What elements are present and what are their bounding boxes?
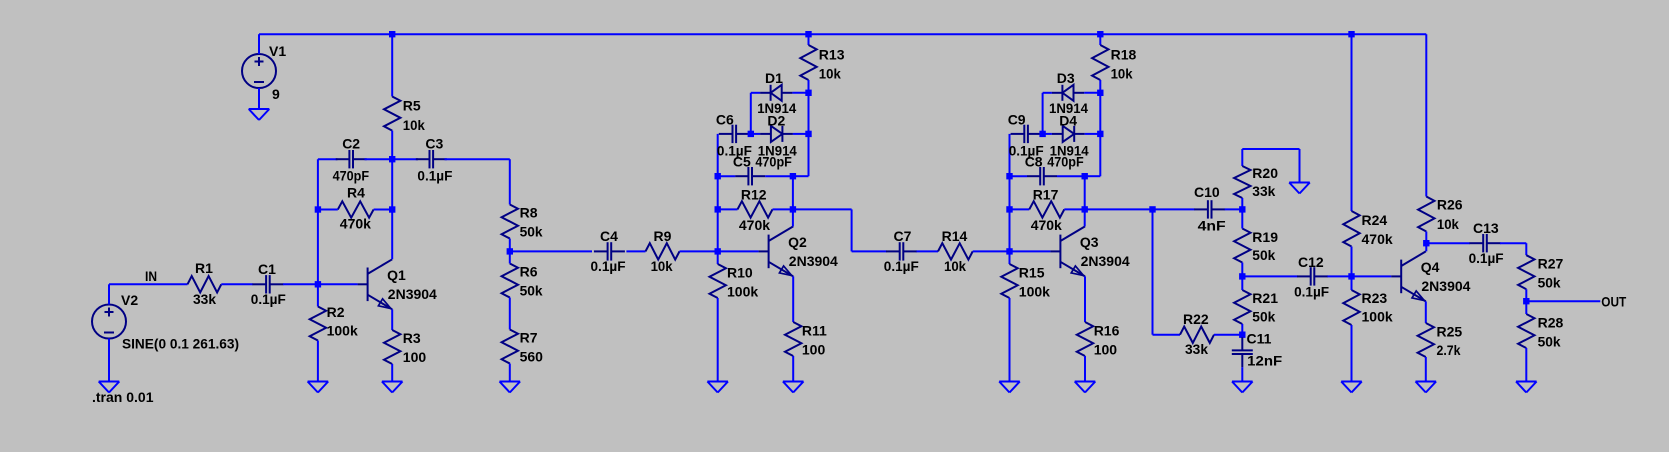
wire — [1084, 209, 1086, 226]
svg-text:33k: 33k — [193, 291, 216, 307]
junction — [1097, 31, 1103, 37]
svg-text:R13: R13 — [819, 47, 845, 63]
svg-text:0.1µF: 0.1µF — [884, 258, 919, 274]
wire — [1085, 208, 1153, 210]
svg-text:C2: C2 — [342, 136, 360, 152]
svg-text:50k: 50k — [1538, 334, 1561, 350]
junction — [1006, 206, 1012, 212]
wire — [792, 92, 808, 94]
wire — [1351, 247, 1353, 277]
svg-text:33k: 33k — [1185, 341, 1208, 357]
wire — [765, 175, 793, 177]
wire — [717, 251, 719, 264]
svg-text:Q2: Q2 — [788, 234, 807, 250]
wire — [108, 339, 110, 382]
junction — [389, 206, 395, 212]
junction — [1082, 173, 1088, 179]
junction — [790, 173, 796, 179]
wire — [1043, 92, 1052, 94]
svg-text:100k: 100k — [1019, 284, 1050, 300]
svg-text:IN: IN — [145, 268, 157, 284]
wire — [1352, 275, 1392, 277]
svg-text:R17: R17 — [1033, 187, 1059, 203]
junction — [715, 173, 721, 179]
transistor Q2 — [759, 226, 838, 276]
wire — [1214, 334, 1242, 336]
wire — [318, 158, 338, 160]
svg-text:2N3904: 2N3904 — [388, 286, 437, 302]
wire — [1425, 301, 1427, 323]
wire — [773, 208, 793, 210]
wire — [391, 309, 393, 330]
capacitor C3 — [416, 136, 453, 184]
svg-text:100k: 100k — [727, 284, 758, 300]
svg-text:D4: D4 — [1059, 113, 1077, 129]
svg-text:C10: C10 — [1194, 184, 1220, 200]
svg-text:2N3904: 2N3904 — [789, 253, 838, 269]
svg-text:50k: 50k — [1252, 247, 1275, 263]
wire — [258, 88, 260, 109]
svg-text:R16: R16 — [1094, 323, 1120, 339]
wire — [1241, 149, 1243, 166]
wire — [808, 34, 810, 45]
wire — [973, 250, 1010, 252]
junction — [1239, 273, 1245, 279]
resistor R26 — [1418, 197, 1463, 233]
ground — [1289, 183, 1310, 194]
wire — [1241, 276, 1243, 290]
svg-text:C13: C13 — [1473, 220, 1499, 236]
svg-text:R2: R2 — [327, 304, 345, 320]
ground — [999, 382, 1020, 393]
resistor R10 — [710, 264, 759, 300]
wire — [318, 209, 338, 211]
svg-text:Q1: Q1 — [387, 267, 406, 283]
svg-text:560: 560 — [520, 349, 544, 365]
wire — [1043, 133, 1052, 135]
capacitor C6 — [716, 112, 752, 159]
transistor Q1 — [358, 259, 437, 309]
ground — [382, 382, 403, 393]
svg-text:0.1µF: 0.1µF — [591, 258, 626, 274]
capacitor C2 — [333, 136, 370, 184]
ground — [1341, 382, 1362, 393]
capacitor C13 — [1469, 220, 1504, 266]
resistor R19 — [1234, 229, 1278, 264]
voltage source V2 — [92, 292, 239, 352]
ground — [1075, 382, 1096, 393]
wire — [917, 250, 939, 252]
svg-text:D1: D1 — [765, 70, 783, 86]
svg-text:R14: R14 — [942, 228, 968, 244]
resistor R15 — [1001, 264, 1050, 300]
svg-text:R22: R22 — [1183, 311, 1209, 327]
svg-text:0.1µF: 0.1µF — [251, 291, 286, 307]
svg-text:R28: R28 — [1538, 315, 1564, 331]
svg-text:100: 100 — [1094, 342, 1118, 358]
wire — [509, 239, 511, 252]
junction — [805, 131, 811, 137]
svg-text:0.1µF: 0.1µF — [417, 168, 452, 184]
wire — [1057, 175, 1085, 177]
wire — [1099, 80, 1101, 176]
resistor R12 — [738, 187, 773, 234]
wire — [391, 210, 393, 260]
ground — [1416, 382, 1437, 393]
wire — [751, 133, 760, 135]
svg-text:C6: C6 — [716, 112, 734, 128]
wire — [445, 158, 510, 160]
capacitor C5 — [733, 154, 792, 186]
wire — [717, 134, 719, 252]
svg-text:470pF: 470pF — [1047, 154, 1084, 170]
resistor R3 — [384, 330, 426, 365]
svg-text:D2: D2 — [767, 113, 785, 129]
wire — [718, 208, 738, 210]
capacitor C1 — [251, 261, 286, 307]
wire — [751, 92, 760, 94]
junction — [1423, 240, 1429, 246]
wire — [1084, 176, 1086, 209]
wire — [852, 250, 887, 252]
capacitor C4 — [591, 228, 626, 274]
wire — [1242, 148, 1299, 150]
wire — [1153, 208, 1195, 210]
svg-text:C8: C8 — [1025, 154, 1043, 170]
resistor R11 — [785, 322, 827, 358]
wire — [1500, 242, 1526, 244]
wire — [750, 93, 752, 134]
svg-text:C1: C1 — [258, 261, 276, 277]
svg-text:R10: R10 — [727, 265, 753, 281]
wire — [1426, 242, 1470, 244]
svg-text:10k: 10k — [651, 258, 673, 274]
wire — [1299, 149, 1301, 183]
voltage source V1 — [242, 43, 286, 102]
ground — [500, 382, 521, 393]
svg-text:C11: C11 — [1247, 331, 1272, 347]
wire — [1241, 263, 1243, 277]
svg-text:10k: 10k — [1437, 216, 1459, 232]
wire — [792, 176, 794, 209]
wire — [1041, 133, 1043, 135]
svg-text:10k: 10k — [403, 117, 425, 133]
ground — [783, 382, 804, 393]
resistor R9 — [646, 228, 680, 274]
svg-text:R21: R21 — [1252, 290, 1278, 306]
resistor R28 — [1518, 314, 1563, 350]
ground — [99, 382, 120, 393]
ground — [308, 382, 329, 393]
svg-text:R23: R23 — [1362, 290, 1388, 306]
svg-text:V2: V2 — [121, 292, 138, 308]
junction — [315, 206, 321, 212]
svg-text:R19: R19 — [1252, 229, 1278, 245]
wire — [808, 80, 810, 176]
wire — [365, 158, 393, 160]
wire — [317, 341, 319, 382]
wire — [1241, 209, 1243, 228]
svg-text:.tran 0.01: .tran 0.01 — [92, 389, 154, 405]
junction — [1523, 298, 1529, 304]
wire — [509, 159, 511, 204]
wire — [1152, 209, 1154, 334]
svg-text:100: 100 — [802, 342, 826, 358]
svg-text:OUT: OUT — [1601, 294, 1626, 310]
wire — [1241, 198, 1243, 209]
wire — [1085, 175, 1101, 177]
resistor R1 — [188, 260, 222, 307]
junction — [507, 248, 513, 254]
wire — [1525, 243, 1527, 255]
wire — [717, 298, 719, 382]
resistor R6 — [502, 264, 543, 299]
wire — [1328, 275, 1352, 277]
svg-text:470k: 470k — [1031, 217, 1062, 233]
junction — [805, 90, 811, 96]
capacitor C12 — [1294, 254, 1329, 300]
svg-text:C3: C3 — [425, 136, 443, 152]
wire — [680, 250, 718, 252]
transistor Q4 — [1391, 251, 1470, 301]
ground — [707, 382, 728, 393]
wire — [1010, 250, 1051, 252]
wire — [318, 283, 358, 285]
diode D3 — [1049, 70, 1088, 116]
wire — [1526, 300, 1600, 302]
svg-text:50k: 50k — [520, 224, 543, 240]
svg-text:R12: R12 — [741, 187, 767, 203]
svg-text:R11: R11 — [802, 323, 827, 339]
svg-text:10k: 10k — [1111, 66, 1133, 82]
wire — [510, 250, 592, 252]
junction — [1006, 173, 1012, 179]
svg-text:C5: C5 — [733, 154, 751, 170]
svg-text:4nF: 4nF — [1198, 218, 1227, 234]
wire — [1009, 251, 1011, 264]
junction — [1097, 131, 1103, 137]
diode D1 — [757, 70, 796, 116]
wire — [793, 133, 809, 135]
junction — [1006, 248, 1012, 254]
ground — [1232, 382, 1253, 393]
wire — [1425, 34, 1427, 196]
wire — [391, 364, 393, 382]
svg-text:R6: R6 — [520, 264, 538, 280]
svg-text:SINE(0 0.1 261.63): SINE(0 0.1 261.63) — [122, 336, 239, 352]
resistor R4 — [338, 185, 374, 232]
svg-text:100: 100 — [403, 349, 427, 365]
svg-text:R4: R4 — [347, 185, 365, 201]
wire — [1084, 92, 1100, 94]
resistor R21 — [1234, 290, 1278, 325]
resistor R2 — [310, 304, 358, 341]
wire — [109, 283, 188, 285]
junction — [715, 248, 721, 254]
wire — [221, 283, 253, 285]
svg-text:R9: R9 — [654, 228, 672, 244]
wire — [1085, 133, 1101, 135]
junction — [1039, 131, 1045, 137]
capacitor C7 — [884, 228, 919, 274]
svg-text:R24: R24 — [1362, 212, 1388, 228]
svg-text:33k: 33k — [1252, 183, 1275, 199]
capacitor C9 — [1008, 112, 1044, 159]
junction — [715, 206, 721, 212]
svg-text:0.1µF: 0.1µF — [1294, 284, 1329, 300]
wire — [1425, 232, 1427, 252]
svg-text:R1: R1 — [195, 260, 213, 276]
svg-text:D3: D3 — [1057, 70, 1075, 86]
wire — [792, 356, 794, 382]
resistor R27 — [1518, 255, 1563, 290]
junction — [1082, 206, 1088, 212]
svg-text:2N3904: 2N3904 — [1421, 278, 1470, 294]
junction — [1149, 206, 1155, 212]
svg-text:V1: V1 — [269, 43, 286, 59]
svg-text:C12: C12 — [1298, 254, 1324, 270]
svg-text:100k: 100k — [327, 323, 358, 339]
wire — [1010, 208, 1030, 210]
junction — [1348, 273, 1354, 279]
capacitor C8 — [1025, 154, 1084, 186]
junction — [790, 206, 796, 212]
wire — [283, 283, 318, 285]
wire — [374, 209, 393, 211]
junction — [1348, 31, 1354, 37]
wire — [1241, 324, 1243, 335]
svg-text:0.1µF: 0.1µF — [1469, 250, 1504, 266]
wire — [1009, 298, 1011, 382]
wire — [626, 250, 645, 252]
resistor R25 — [1418, 323, 1463, 358]
svg-text:10k: 10k — [819, 66, 841, 82]
junction — [748, 131, 754, 137]
wire — [509, 251, 511, 263]
transistor Q3 — [1050, 226, 1129, 276]
svg-text:50k: 50k — [1252, 309, 1275, 325]
wire — [792, 209, 794, 226]
capacitor C10 — [1194, 184, 1226, 234]
wire — [1242, 275, 1297, 277]
svg-text:10k: 10k — [944, 258, 966, 274]
resistor R5 — [384, 97, 425, 134]
wire — [1042, 93, 1044, 134]
wire — [1425, 357, 1427, 382]
svg-text:Q3: Q3 — [1080, 234, 1099, 250]
diode D2 — [758, 113, 797, 159]
svg-text:C7: C7 — [894, 228, 912, 244]
svg-text:R26: R26 — [1437, 197, 1463, 213]
wire — [1009, 134, 1011, 252]
wire — [258, 34, 260, 54]
wire — [1351, 325, 1353, 382]
wire — [1241, 367, 1243, 381]
wire — [509, 298, 511, 330]
junction — [315, 281, 321, 287]
wire — [749, 133, 751, 135]
svg-text:R3: R3 — [403, 330, 421, 346]
wire — [1351, 34, 1353, 211]
junction — [1239, 332, 1245, 338]
wire — [1010, 175, 1028, 177]
wire — [1153, 334, 1181, 336]
junction — [1097, 90, 1103, 96]
svg-text:R27: R27 — [1538, 256, 1564, 272]
junction — [805, 31, 811, 37]
resistor R20 — [1234, 165, 1278, 199]
wire — [1064, 208, 1084, 210]
resistor R23 — [1343, 290, 1393, 325]
resistor R18 — [1092, 45, 1136, 82]
wire — [317, 159, 319, 284]
resistor R14 — [938, 228, 973, 274]
junction — [389, 31, 395, 37]
wire — [1084, 276, 1086, 322]
resistor R13 — [800, 45, 844, 82]
wire — [1351, 276, 1353, 290]
wire — [317, 284, 319, 306]
capacitor C11 — [1232, 331, 1283, 369]
svg-text:470k: 470k — [340, 216, 371, 232]
junction — [389, 156, 395, 162]
wire — [792, 276, 794, 322]
resistor R24 — [1343, 211, 1393, 247]
wire — [391, 159, 393, 209]
svg-text:9: 9 — [272, 86, 280, 102]
resistor R22 — [1180, 311, 1214, 357]
ground — [1516, 382, 1537, 393]
svg-text:R8: R8 — [520, 205, 538, 221]
wire — [1525, 301, 1527, 314]
svg-text:470k: 470k — [1362, 231, 1393, 247]
wire — [793, 175, 809, 177]
svg-text:100k: 100k — [1362, 309, 1393, 325]
resistor R16 — [1077, 322, 1120, 358]
wire — [1084, 356, 1086, 382]
svg-text:470k: 470k — [739, 217, 770, 233]
svg-text:470pF: 470pF — [755, 154, 792, 170]
svg-text:R25: R25 — [1437, 324, 1463, 340]
junction — [1239, 206, 1245, 212]
svg-text:2.7k: 2.7k — [1437, 342, 1461, 358]
diode D4 — [1050, 113, 1089, 159]
wire — [851, 209, 853, 251]
svg-text:R18: R18 — [1111, 47, 1137, 63]
svg-text:R15: R15 — [1019, 265, 1045, 281]
svg-text:R5: R5 — [403, 98, 421, 114]
resistor R8 — [502, 205, 543, 240]
wire — [391, 34, 393, 96]
resistor R17 — [1029, 187, 1064, 234]
svg-text:R20: R20 — [1252, 165, 1278, 181]
ground — [249, 109, 270, 120]
svg-text:Q4: Q4 — [1421, 259, 1440, 275]
svg-text:50k: 50k — [520, 283, 543, 299]
wire — [1225, 208, 1243, 210]
wire — [1525, 289, 1527, 301]
wire — [108, 284, 110, 304]
wire — [1525, 348, 1527, 382]
wire — [391, 131, 393, 160]
svg-text:50k: 50k — [1538, 275, 1561, 291]
svg-text:2N3904: 2N3904 — [1081, 253, 1130, 269]
svg-text:470pF: 470pF — [333, 168, 370, 184]
resistor R7 — [502, 330, 544, 365]
wire — [718, 175, 736, 177]
wire — [793, 208, 852, 210]
wire — [509, 364, 511, 382]
